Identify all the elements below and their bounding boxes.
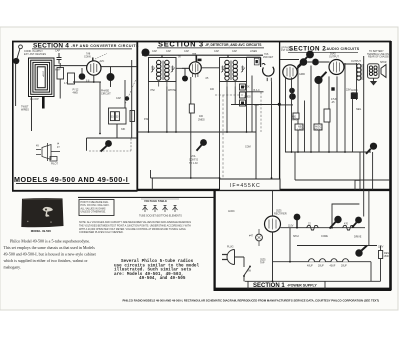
resistor R3 — [115, 112, 119, 121]
svg-text:B.A.C: B.A.C — [254, 89, 261, 92]
svg-text:OUTPUT: OUTPUT — [329, 55, 339, 58]
svg-text:LINEN: LINEN — [250, 50, 257, 53]
resistor stack R11 — [240, 92, 246, 98]
section1 / frame bottom thick border — [214, 288, 392, 291]
wire tube cathode drop — [73, 75, 101, 133]
svg-text:SP12: SP12 — [293, 235, 300, 238]
svg-text:CIRCUIT: CIRCUIT — [101, 93, 111, 96]
svg-text:22M: 22M — [346, 89, 351, 92]
svg-text:IF=455KC: IF=455KC — [230, 183, 261, 189]
divider section4/section3 — [136, 42, 138, 191]
2nd IF transformer T2 — [220, 58, 247, 82]
ant resistor leads — [59, 63, 61, 99]
bus y152 — [285, 151, 371, 153]
tone control blob — [370, 143, 377, 150]
svg-text:REAR OF CHASSIS: REAR OF CHASSIS — [368, 56, 390, 59]
svg-text:RECTIFIER: RECTIFIER — [274, 212, 287, 215]
component boxes — [293, 113, 299, 119]
filter blob 1 — [294, 214, 301, 221]
b+ bus — [281, 227, 366, 229]
svg-text:SECTION 1: SECTION 1 — [253, 283, 285, 289]
top wires — [280, 60, 356, 65]
svg-text:-POWER SUPPLY: -POWER SUPPLY — [287, 284, 317, 288]
blob1 stem — [296, 220, 298, 228]
svg-text:PILOT: PILOT — [51, 163, 58, 166]
power cord entry plug — [36, 143, 60, 161]
dashed dial cord — [89, 139, 131, 152]
svg-text:CONV.: CONV. — [84, 55, 92, 58]
power plug — [227, 250, 235, 265]
filter blob 2 — [334, 216, 341, 223]
svg-text:PHILCO RADIO MODELS 49-500 AND: PHILCO RADIO MODELS 49-500 AND 49-500-I,… — [123, 298, 380, 302]
oscillator transformer box — [109, 108, 127, 124]
filter blob 3 — [355, 217, 362, 224]
svg-text:P52: P52 — [151, 89, 156, 92]
svg-text:1ST AUDIO: 1ST AUDIO — [281, 49, 294, 52]
wire gang lead — [110, 67, 112, 87]
resistor stack R12 — [240, 100, 246, 106]
T1 bottom leads — [159, 82, 167, 87]
electrolytic C21 — [320, 259, 326, 262]
svg-text:470: 470 — [344, 223, 349, 226]
socket glyph 4 — [173, 205, 178, 212]
wire blob stem — [182, 68, 189, 75]
wire loop left lead — [31, 97, 33, 132]
coupling blob A — [300, 58, 308, 66]
1st audio tube V4 — [283, 65, 297, 79]
svg-text:110V: 110V — [288, 225, 294, 228]
blob A stem — [297, 65, 301, 69]
junction blob on divider — [142, 49, 150, 57]
svg-text:4WD: 4WD — [73, 91, 79, 94]
padder blob — [79, 73, 86, 80]
svg-text:2ND DET: 2ND DET — [263, 56, 274, 59]
plate top bus — [142, 55, 263, 57]
schematic outer frame left — [12, 41, 14, 192]
radio dial highlight — [43, 207, 54, 217]
blob2 stem — [330, 222, 336, 229]
svg-text:CAP: CAP — [55, 50, 60, 53]
wire t2-tube — [247, 57, 261, 67]
mid rail — [297, 245, 377, 247]
svg-text:CAP: CAP — [152, 50, 157, 53]
wire grid bus — [54, 66, 137, 67]
svg-text:33K: 33K — [121, 128, 126, 131]
dial pointer blob — [105, 140, 112, 147]
svg-text:-RF AND CONVERTER CIRCUITS: -RF AND CONVERTER CIRCUITS — [71, 44, 139, 48]
trimmer cap C1 — [57, 53, 62, 64]
wire osc bottom — [87, 124, 138, 151]
svg-text:VOLTAGE TABLE: VOLTAGE TABLE — [144, 199, 167, 203]
converter tube V1 7A8 — [87, 61, 101, 75]
tone blob stem — [321, 72, 326, 78]
avc bus wire — [137, 105, 256, 191]
knob glints — [27, 221, 28, 222]
dial pointer stem — [101, 146, 107, 152]
svg-text:SECTION 2: SECTION 2 — [289, 45, 326, 52]
stacked blob upper — [289, 88, 295, 94]
svg-text:150K: 150K — [384, 255, 390, 258]
svg-text:CAP: CAP — [232, 50, 237, 53]
svg-text:CAP: CAP — [214, 50, 219, 53]
svg-text:MWF: MWF — [55, 69, 61, 72]
svg-text:CONDENSER PLATES FULLY MESHED.: CONDENSER PLATES FULLY MESHED. — [79, 231, 124, 234]
dashed top link — [215, 94, 244, 96]
grid cap stub — [195, 55, 197, 62]
svg-text:CAP: CAP — [184, 50, 189, 53]
small box det left — [254, 58, 259, 65]
svg-text:40UF: 40UF — [330, 265, 336, 268]
resistor R4 — [130, 111, 135, 122]
coupling blob B — [312, 59, 319, 66]
svg-text:20UF: 20UF — [341, 265, 347, 268]
resistor zig R21 — [343, 225, 355, 230]
svg-text:NEG: NEG — [356, 108, 361, 111]
blob4 stem — [362, 246, 368, 251]
svg-text:mahogany.: mahogany. — [4, 265, 21, 270]
svg-text:49-504, and 49-505: 49-504, and 49-505 — [139, 276, 186, 281]
socket glyph 1 — [143, 205, 148, 212]
svg-text:470K: 470K — [244, 86, 250, 89]
grid cap mark — [198, 59, 202, 62]
wire antenna blob lead — [16, 49, 20, 107]
grid blob — [182, 76, 188, 82]
dark resistor block — [351, 93, 358, 100]
svg-text:GRID: GRID — [299, 73, 305, 76]
grid resistor box — [68, 73, 75, 84]
svg-text:PRONG: PRONG — [314, 128, 323, 131]
wire tube top — [272, 191, 274, 217]
output tube V5 — [329, 60, 344, 75]
electrolytic rail — [273, 261, 371, 263]
cap blob small — [125, 96, 129, 100]
svg-text:400: 400 — [210, 88, 215, 91]
stacked blob lower — [289, 93, 296, 100]
ant resistor box — [57, 68, 64, 80]
dashed pointer diagonal — [125, 80, 135, 104]
tuning gang blob — [107, 73, 115, 81]
svg-text:PLUG: PLUG — [227, 246, 234, 249]
T2 bottom leads — [227, 82, 235, 87]
electrolytic C20 — [309, 259, 315, 262]
loop antenna lead stub — [42, 97, 45, 109]
svg-text:1MEG: 1MEG — [244, 96, 251, 99]
1st IF transformer T1 — [149, 58, 177, 82]
short bus — [231, 104, 280, 106]
svg-text:MFD: MFD — [292, 118, 297, 121]
T2 trimmer right — [241, 66, 245, 73]
svg-text:Philco Model 49-500 is a: Philco Model 49-500 is a 5-tube superhet… — [10, 239, 90, 244]
svg-text:20UF: 20UF — [318, 265, 324, 268]
resistor zig R20 — [307, 225, 319, 230]
svg-text:SECTION 4: SECTION 4 — [33, 42, 69, 49]
svg-text:-IF, DETECTOR, AND AVC CIRCUIT: -IF, DETECTOR, AND AVC CIRCUITS — [205, 43, 262, 47]
notes box — [79, 200, 114, 216]
svg-text:WIRES: WIRES — [21, 108, 29, 111]
radio photograph — [21, 198, 63, 227]
antenna terminal circle — [19, 45, 23, 49]
wire bus t1-tube — [176, 67, 220, 70]
svg-text:TO 1 AV: TO 1 AV — [189, 162, 198, 165]
svg-text:UNLESS OTHERWISE.: UNLESS OTHERWISE. — [81, 211, 107, 214]
svg-text:CAP: CAP — [116, 97, 121, 100]
wire tube bottom — [272, 232, 274, 281]
padder lead — [81, 68, 83, 73]
T1 trimmer right — [171, 66, 175, 73]
b+ wire — [151, 170, 220, 190]
svg-text:MODEL 49-506: MODEL 49-506 — [31, 229, 52, 233]
tube pin stubs — [193, 74, 198, 78]
svg-text:-AUDIO CIRCUITS: -AUDIO CIRCUITS — [325, 47, 360, 51]
section 1 label box — [248, 281, 325, 289]
svg-text:J-MEG: J-MEG — [297, 128, 305, 131]
svg-text:TAP: TAP — [260, 261, 265, 264]
detector tube V3 (open circle) — [263, 67, 274, 76]
loop antenna LA1 — [29, 58, 55, 97]
volume control blob — [200, 139, 207, 146]
pwr square — [331, 87, 334, 90]
svg-text:TUBE SOCKET (BOTTOM) ELEMENTS: TUBE SOCKET (BOTTOM) ELEMENTS — [139, 215, 182, 218]
svg-text:MODELS 49-500 AND 49-500-I: MODELS 49-500 AND 49-500-I — [14, 175, 128, 184]
top loop wire — [332, 204, 359, 227]
svg-text:P32: P32 — [144, 118, 149, 121]
vertical wires to bus — [285, 77, 287, 152]
schematic outer frame right — [389, 41, 392, 290]
svg-text:DRIVE: DRIVE — [354, 236, 362, 239]
wire at y105 — [280, 104, 293, 106]
svg-text:OUTPUT: OUTPUT — [351, 60, 361, 63]
svg-text:CAP: CAP — [166, 50, 171, 53]
svg-text:LOOP: LOOP — [42, 71, 44, 78]
1st IF tube V2 — [189, 62, 201, 74]
notes area top rule — [78, 196, 215, 198]
resistor R13 — [189, 104, 194, 113]
long verticals — [148, 82, 150, 133]
T2 trimmer left — [221, 66, 225, 73]
socket glyph 3 — [163, 205, 168, 212]
svg-text:ACDC: ACDC — [228, 210, 235, 213]
socket glyph 2 — [153, 205, 158, 212]
right resistor R22 — [379, 251, 383, 259]
T1 trimmer left — [151, 66, 155, 73]
lamp leads — [258, 229, 260, 246]
ground bus bottom — [245, 228, 381, 282]
mid horizontal divider under sections 2,3 — [137, 189, 391, 191]
filter blob 4 — [355, 249, 362, 256]
wire plug-switch — [235, 257, 245, 267]
wire right vertical — [131, 60, 133, 138]
rectifier tube V6 — [265, 216, 281, 232]
IF=455KC box — [220, 179, 281, 190]
tone control stem — [366, 149, 371, 154]
electrolytic C22 — [331, 259, 337, 262]
lower rail — [295, 152, 390, 190]
resistor stack R10 — [240, 84, 246, 90]
loop center window — [39, 69, 44, 87]
right drop wire — [380, 246, 382, 282]
speaker cone — [381, 65, 386, 78]
det pins — [267, 78, 271, 81]
section1 box left border — [213, 190, 215, 290]
svg-text:#47: #47 — [249, 235, 254, 238]
volume control stem — [197, 145, 202, 151]
svg-text:117V: 117V — [378, 246, 384, 249]
schematic outer frame top — [12, 41, 391, 43]
svg-text:COM: COM — [245, 146, 251, 149]
phono arrow stem — [298, 57, 308, 67]
wire mid vertical — [124, 80, 126, 108]
pointer dashes — [95, 54, 107, 60]
divider section3/section2 — [279, 42, 281, 191]
verticals from divider — [363, 190, 365, 217]
svg-text:CORE: CORE — [321, 235, 328, 238]
on-off switch — [244, 267, 250, 276]
tone blob — [314, 76, 322, 84]
svg-text:AVC: AVC — [100, 60, 105, 63]
antenna lead blob — [13, 58, 19, 64]
svg-text:SPKR: SPKR — [380, 61, 387, 64]
speaker assembly — [368, 64, 379, 78]
svg-text:EXT. ANT. DEVICES: EXT. ANT. DEVICES — [24, 53, 46, 56]
schematic frame bottom-left segment — [12, 190, 138, 192]
svg-text:This set employs the same chas: This set employs the same chassis as tha… — [4, 245, 96, 250]
t1 lead long — [166, 87, 168, 133]
blob3 stem — [352, 223, 357, 228]
resistor R2 — [110, 112, 114, 121]
ground symbol — [371, 78, 376, 85]
svg-text:SECTION 3: SECTION 3 — [158, 40, 204, 49]
svg-text:2MEG: 2MEG — [198, 119, 205, 122]
svg-text:WHITE: WHITE — [168, 89, 176, 92]
pilot lamp — [256, 234, 263, 241]
svg-text:40UF: 40UF — [307, 265, 313, 268]
phono arrow blob — [306, 51, 314, 59]
output transformer T3 — [357, 64, 361, 80]
electrolytic C23 — [343, 259, 349, 262]
